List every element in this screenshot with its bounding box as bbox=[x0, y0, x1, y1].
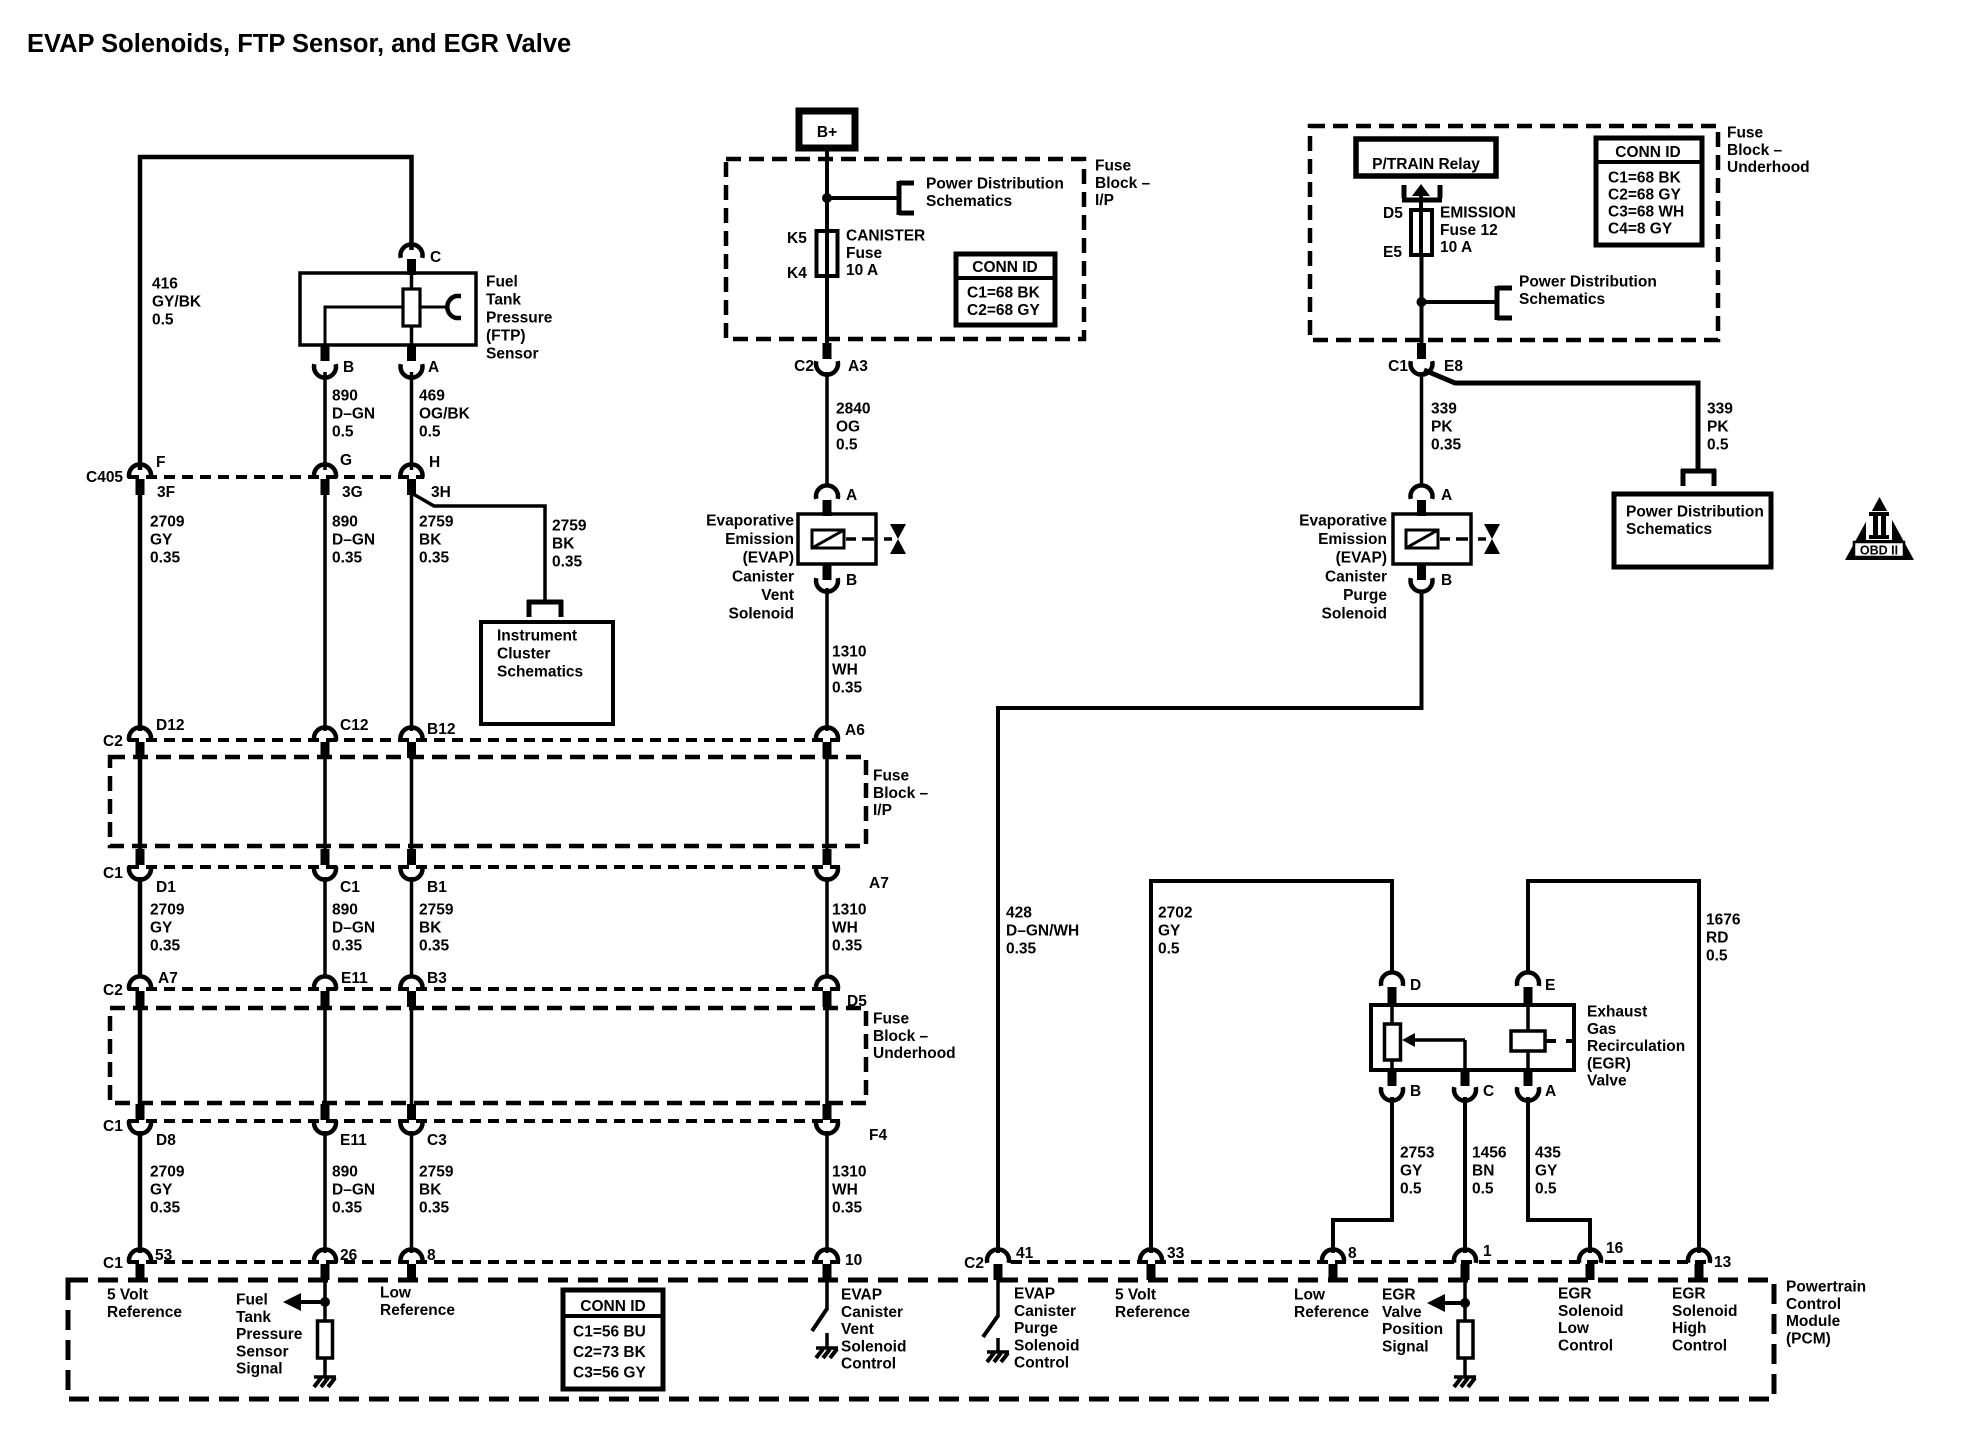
svg-text:10 A: 10 A bbox=[1440, 239, 1472, 256]
FTP sensor internal wire to pin B bbox=[325, 307, 403, 345]
svg-text:Emission: Emission bbox=[1318, 531, 1387, 548]
svg-text:2840: 2840 bbox=[836, 401, 870, 418]
svg-text:0.35: 0.35 bbox=[1431, 437, 1462, 454]
svg-text:EVAP: EVAP bbox=[1014, 1286, 1055, 1303]
svg-text:890: 890 bbox=[332, 1164, 358, 1181]
inline connector row C1 lower dashed line bbox=[128, 1119, 840, 1123]
connector pin C of FTP sensor bbox=[401, 244, 423, 275]
P/TRAIN Relay box bbox=[1356, 139, 1496, 176]
svg-text:Canister: Canister bbox=[841, 1304, 903, 1321]
svg-text:0.5: 0.5 bbox=[152, 312, 174, 329]
OBD II symbol bbox=[1845, 497, 1914, 560]
label Powertrain Control Module (PCM) bbox=[1786, 1279, 1866, 1348]
svg-text:0.35: 0.35 bbox=[552, 554, 583, 571]
svg-text:E: E bbox=[1545, 977, 1555, 994]
ground EGR position signal bbox=[1454, 1377, 1476, 1387]
svg-text:D1: D1 bbox=[156, 879, 176, 896]
svg-text:3F: 3F bbox=[157, 484, 175, 501]
EGR position sensor potentiometer bbox=[1385, 1024, 1401, 1060]
svg-text:OG/BK: OG/BK bbox=[419, 406, 471, 423]
connector pin B of FTP sensor bbox=[314, 345, 336, 378]
svg-text:A7: A7 bbox=[158, 970, 178, 987]
label wire 428 D-GN/WH 0.35 bbox=[1006, 905, 1079, 958]
svg-text:Block –: Block – bbox=[1095, 175, 1151, 192]
svg-text:GY/BK: GY/BK bbox=[152, 294, 202, 311]
svg-text:Instrument: Instrument bbox=[497, 628, 577, 645]
label wire 890 D-GN 0.35 third bbox=[332, 1164, 375, 1217]
svg-text:C1: C1 bbox=[103, 1255, 123, 1272]
FTP sensor internal wire resistor to pin A bbox=[410, 326, 414, 345]
connector C2 pin A7 lower bbox=[129, 976, 151, 1007]
label wire 890 D-GN 0.35 bbox=[332, 514, 375, 567]
wire 1456 BN 0.5 from EGR C to PCM pin 1 bbox=[1463, 1097, 1467, 1253]
svg-text:Reference: Reference bbox=[107, 1304, 182, 1321]
label Fuse Block Underhood bbox=[873, 1011, 956, 1063]
label wire 416 GY/BK 0.5 bbox=[152, 276, 202, 329]
label wire 1310 WH 0.35 bbox=[832, 644, 866, 697]
FTP sensor box bbox=[300, 273, 476, 345]
svg-text:WH: WH bbox=[832, 1182, 858, 1199]
label pin A bbox=[428, 359, 439, 376]
label EGR Valve Position Signal bbox=[1382, 1287, 1443, 1356]
label Fuse Block I/P top bbox=[1095, 158, 1151, 210]
svg-text:2709: 2709 bbox=[150, 1164, 185, 1181]
label pin H bbox=[429, 454, 440, 471]
label fuse terminal D5 bbox=[1383, 205, 1403, 222]
svg-text:BK: BK bbox=[419, 920, 442, 937]
vent solenoid coil symbol bbox=[812, 530, 844, 548]
wire inside underhood block B3 to C3 bbox=[410, 1007, 414, 1104]
svg-text:339: 339 bbox=[1707, 401, 1733, 418]
label vent solenoid pin A bbox=[846, 487, 857, 504]
CONN ID box I/P bbox=[956, 254, 1055, 325]
label connector C1 bottom bbox=[103, 1255, 123, 1272]
label EVAP Canister Vent Solenoid Control bbox=[841, 1287, 906, 1373]
svg-text:BK: BK bbox=[552, 536, 575, 553]
label pin A3 bbox=[848, 358, 868, 375]
wire 416 GY/BK feed from FTP sensor pin C to connector C405 pin F bbox=[140, 157, 412, 470]
canister fuse element bbox=[817, 231, 838, 276]
svg-text:0.35: 0.35 bbox=[832, 1200, 863, 1217]
label Low Reference bbox=[380, 1285, 455, 1319]
junction FTP sensor signal bbox=[320, 1297, 330, 1307]
svg-text:469: 469 bbox=[419, 388, 445, 405]
svg-text:0.5: 0.5 bbox=[836, 437, 858, 454]
svg-text:C12: C12 bbox=[340, 717, 368, 734]
label wire 435 GY 0.5 bbox=[1535, 1145, 1561, 1198]
svg-text:Vent: Vent bbox=[841, 1321, 874, 1338]
svg-text:EVAP Solenoids, FTP Sensor, an: EVAP Solenoids, FTP Sensor, and EGR Valv… bbox=[27, 30, 571, 58]
svg-text:5 Volt: 5 Volt bbox=[1115, 1287, 1156, 1304]
connector pin D of EGR valve bbox=[1381, 972, 1403, 1003]
wire PCM pin 10 internal bbox=[825, 1280, 829, 1309]
label EGR Solenoid Low Control bbox=[1558, 1286, 1623, 1355]
svg-text:Solenoid: Solenoid bbox=[841, 1338, 906, 1355]
label C405 bbox=[86, 469, 123, 486]
EGR solenoid wire through bbox=[1526, 1005, 1530, 1070]
label Instrument Cluster Schematics bbox=[497, 628, 583, 681]
svg-text:16: 16 bbox=[1606, 1240, 1624, 1257]
label pin D8 bbox=[156, 1132, 176, 1149]
svg-text:428: 428 bbox=[1006, 905, 1032, 922]
svg-text:Evaporative: Evaporative bbox=[706, 513, 794, 530]
label terminal 3H bbox=[431, 484, 451, 501]
svg-text:C1: C1 bbox=[103, 865, 123, 882]
label wire 1310 WH 0.35 third bbox=[832, 1164, 866, 1217]
svg-text:PK: PK bbox=[1431, 419, 1453, 436]
svg-text:0.5: 0.5 bbox=[1400, 1181, 1422, 1198]
svg-text:OG: OG bbox=[836, 419, 860, 436]
label wire 1456 BN 0.5 bbox=[1472, 1145, 1507, 1198]
svg-text:I/P: I/P bbox=[1095, 192, 1114, 209]
label pin 16 bbox=[1606, 1240, 1624, 1257]
connector C405 pin H bbox=[401, 464, 423, 495]
connector C2 pin C12 bbox=[314, 727, 336, 758]
junction to power distribution bbox=[822, 193, 832, 203]
wire 339 PK 0.35 from E8 to purge solenoid pin A bbox=[1420, 372, 1424, 487]
label pin 8 right bbox=[1348, 1245, 1357, 1262]
svg-text:0.35: 0.35 bbox=[832, 680, 863, 697]
label pin A7 lower bbox=[158, 970, 178, 987]
svg-text:1310: 1310 bbox=[832, 644, 866, 661]
svg-text:GY: GY bbox=[1158, 923, 1181, 940]
CONN ID box underhood bbox=[1596, 138, 1702, 245]
EVAP canister purge solenoid box bbox=[1393, 514, 1471, 564]
svg-text:H: H bbox=[429, 454, 440, 471]
purge solenoid coil symbol bbox=[1406, 530, 1438, 548]
label wire 2709 GY 0.35 second bbox=[150, 902, 185, 955]
label pin E11 lower bbox=[340, 1132, 367, 1149]
wire 890 D-GN 0.35 from C405 G to C2 pin C12 bbox=[323, 495, 327, 731]
wire junction to power distribution pointer right bbox=[1422, 300, 1498, 304]
inline connector row C2 lower dashed line bbox=[128, 987, 840, 991]
svg-text:(EVAP): (EVAP) bbox=[1336, 550, 1387, 567]
svg-text:0.35: 0.35 bbox=[150, 938, 181, 955]
svg-text:1456: 1456 bbox=[1472, 1145, 1507, 1162]
svg-text:A: A bbox=[1545, 1083, 1556, 1100]
label fuse terminal K4 bbox=[787, 265, 807, 282]
svg-text:Tank: Tank bbox=[236, 1309, 271, 1326]
connector C2 pin E11 bbox=[314, 976, 336, 1007]
svg-text:1676: 1676 bbox=[1706, 912, 1741, 929]
svg-text:890: 890 bbox=[332, 388, 358, 405]
svg-text:0.5: 0.5 bbox=[1535, 1181, 1557, 1198]
svg-text:1310: 1310 bbox=[832, 902, 866, 919]
label pin E11 bbox=[341, 970, 368, 987]
label connector C2 bbox=[103, 733, 123, 750]
connector C2 pin D12 bbox=[129, 727, 151, 758]
label Evaporative Emission (EVAP) Canister Purge Solenoid bbox=[1299, 513, 1387, 623]
purge solenoid control switch bbox=[983, 1315, 999, 1337]
label Power Distribution Schematics top bbox=[926, 176, 1064, 210]
svg-text:Control: Control bbox=[1672, 1337, 1727, 1354]
wire 2709 GY 0.35 from C405 F to C2 pin D12 bbox=[138, 495, 143, 731]
svg-text:13: 13 bbox=[1714, 1254, 1732, 1271]
svg-text:Valve: Valve bbox=[1382, 1304, 1422, 1321]
connector pin 16 bbox=[1579, 1249, 1601, 1280]
svg-text:B1: B1 bbox=[427, 879, 447, 896]
svg-text:Solenoid: Solenoid bbox=[1558, 1303, 1623, 1320]
vent solenoid dashed link to valve bbox=[846, 537, 892, 541]
label purge solenoid pin B bbox=[1441, 572, 1452, 589]
label wire 2709 GY 0.35 bbox=[150, 514, 185, 567]
svg-text:0.35: 0.35 bbox=[419, 938, 450, 955]
svg-text:0.35: 0.35 bbox=[419, 550, 450, 567]
pressure transducer symbol inside FTP sensor bbox=[420, 296, 461, 318]
PCM internal resistor EGR bbox=[1458, 1321, 1473, 1358]
svg-text:0.35: 0.35 bbox=[332, 550, 363, 567]
svg-text:Underhood: Underhood bbox=[873, 1045, 956, 1062]
off-page pointer power distribution right bbox=[1497, 286, 1512, 320]
svg-text:Schematics: Schematics bbox=[926, 193, 1012, 210]
svg-text:B+: B+ bbox=[817, 124, 837, 141]
svg-text:D12: D12 bbox=[156, 717, 184, 734]
wire junction to power distribution pointer bbox=[827, 196, 899, 200]
svg-text:0.35: 0.35 bbox=[332, 1200, 363, 1217]
vent solenoid control switch bbox=[812, 1308, 828, 1331]
inline connector C405 dashed line bbox=[128, 475, 424, 479]
connector pin 1 bbox=[1454, 1249, 1476, 1280]
svg-text:WH: WH bbox=[832, 920, 858, 937]
label wire 890 D-GN 0.5 bbox=[332, 388, 375, 441]
Power Distribution Schematics box bbox=[1614, 494, 1771, 567]
svg-text:A: A bbox=[1441, 487, 1452, 504]
svg-text:EVAP: EVAP bbox=[841, 1287, 882, 1304]
label Fuse Block I/P bbox=[873, 768, 929, 820]
label connector C2 bottom bbox=[964, 1255, 984, 1272]
svg-text:EGR: EGR bbox=[1382, 1287, 1416, 1304]
label pin 13 bbox=[1714, 1254, 1732, 1271]
off-page connector to power distribution box bbox=[1681, 469, 1716, 486]
svg-text:2753: 2753 bbox=[1400, 1145, 1435, 1162]
svg-text:416: 416 bbox=[152, 276, 178, 293]
connector pin C of EGR valve bbox=[1454, 1070, 1476, 1101]
wire 2759 BK 0.35 from C405 H to C2 pin B12 bbox=[410, 495, 414, 731]
wire 890 D-GN 0.5 from FTP pin B to C405 pin G bbox=[323, 372, 327, 470]
label purge solenoid pin A bbox=[1441, 487, 1452, 504]
connector pin E of EGR valve bbox=[1517, 972, 1539, 1003]
EVAP canister vent solenoid box bbox=[798, 514, 876, 564]
connector C2 pin B12 bbox=[401, 727, 423, 758]
svg-text:K4: K4 bbox=[787, 265, 807, 282]
svg-text:0.35: 0.35 bbox=[150, 550, 181, 567]
svg-text:Fuse: Fuse bbox=[873, 768, 910, 785]
EGR solenoid link to case bbox=[1545, 1039, 1576, 1043]
svg-text:C2=73 BK: C2=73 BK bbox=[573, 1344, 647, 1361]
svg-text:PK: PK bbox=[1707, 419, 1729, 436]
svg-text:A: A bbox=[846, 487, 857, 504]
svg-text:Tank: Tank bbox=[486, 292, 521, 309]
label wire 2702 GY 0.5 bbox=[1158, 905, 1192, 958]
wire 1310 WH 0.35 from F4 to PCM pin 10 bbox=[825, 1131, 829, 1253]
svg-text:C1: C1 bbox=[103, 1118, 123, 1135]
label connector C2 lower bbox=[103, 982, 123, 999]
connector C1 pin 53 bbox=[129, 1249, 151, 1280]
svg-text:Schematics: Schematics bbox=[1626, 521, 1712, 538]
svg-text:Low: Low bbox=[1294, 1287, 1326, 1304]
label wire 2759 BK 0.35 second bbox=[419, 902, 454, 955]
svg-text:C: C bbox=[430, 249, 441, 266]
battery feed B+ box bbox=[799, 111, 855, 148]
label Power Distribution Schematics right bbox=[1519, 274, 1657, 308]
connector C405 pin G bbox=[314, 464, 336, 495]
svg-text:Fuel: Fuel bbox=[486, 274, 518, 291]
connector pin 8 right bbox=[1322, 1249, 1344, 1280]
svg-text:Exhaust: Exhaust bbox=[1587, 1004, 1647, 1021]
svg-text:890: 890 bbox=[332, 902, 358, 919]
svg-text:2759: 2759 bbox=[419, 514, 454, 531]
connector pin 13 bbox=[1688, 1249, 1710, 1280]
svg-text:(EVAP): (EVAP) bbox=[743, 550, 794, 567]
label Evaporative Emission (EVAP) Canister Vent Solenoid bbox=[706, 513, 794, 623]
svg-text:B: B bbox=[1441, 572, 1452, 589]
svg-text:41: 41 bbox=[1016, 1245, 1034, 1262]
svg-text:Solenoid: Solenoid bbox=[729, 606, 794, 623]
svg-text:A3: A3 bbox=[848, 358, 868, 375]
svg-text:B: B bbox=[343, 359, 354, 376]
label EGR pin E bbox=[1545, 977, 1555, 994]
label wire 2759 BK 0.35 bbox=[419, 514, 454, 567]
svg-text:B: B bbox=[1410, 1083, 1421, 1100]
label pin 8 bbox=[427, 1247, 436, 1264]
svg-text:EGR: EGR bbox=[1672, 1286, 1706, 1303]
connector C2 pin D5 bbox=[816, 976, 838, 1007]
svg-text:E11: E11 bbox=[340, 1132, 367, 1149]
svg-text:0.5: 0.5 bbox=[419, 424, 441, 441]
svg-text:Pressure: Pressure bbox=[486, 310, 553, 327]
label B+ bbox=[817, 124, 837, 141]
svg-text:0.35: 0.35 bbox=[332, 938, 363, 955]
label pin A7 bbox=[869, 875, 889, 892]
svg-text:2702: 2702 bbox=[1158, 905, 1192, 922]
inline connector row C2 dashed line bbox=[128, 738, 840, 742]
svg-text:0.35: 0.35 bbox=[832, 938, 863, 955]
svg-text:EGR: EGR bbox=[1558, 1286, 1592, 1303]
wire PCM pin 1 internal bbox=[1463, 1280, 1467, 1321]
label C1 at E8 bbox=[1388, 358, 1408, 375]
wire 2709 GY 0.35 from D8 to PCM pin 53 bbox=[138, 1131, 143, 1253]
svg-text:G: G bbox=[340, 452, 352, 469]
svg-text:Module: Module bbox=[1786, 1313, 1841, 1330]
svg-text:1: 1 bbox=[1483, 1243, 1492, 1260]
label pin B12 bbox=[427, 721, 455, 738]
label pin D5 bbox=[847, 993, 867, 1010]
svg-text:WH: WH bbox=[832, 662, 858, 679]
svg-text:D–GN: D–GN bbox=[332, 532, 375, 549]
connector C2 A3 bbox=[816, 343, 838, 375]
label wire 469 OG/BK 0.5 bbox=[419, 388, 471, 441]
label wire 339 PK 0.35 bbox=[1431, 401, 1462, 454]
label EGR pin C bbox=[1483, 1083, 1494, 1100]
svg-text:Underhood: Underhood bbox=[1727, 159, 1810, 176]
wire PCM pin 41 internal bbox=[996, 1280, 1000, 1316]
wire 2840 OG 0.5 from C2 A3 to vent solenoid pin A bbox=[825, 372, 829, 487]
connector C1 pin B1 bbox=[401, 849, 423, 880]
svg-text:BN: BN bbox=[1472, 1163, 1494, 1180]
svg-text:435: 435 bbox=[1535, 1145, 1561, 1162]
connector C1 pin C3 bbox=[401, 1104, 423, 1134]
label wire 1310 WH 0.35 second bbox=[832, 902, 866, 955]
label connector C1 lower bbox=[103, 1118, 123, 1135]
label wire 890 D-GN 0.35 second bbox=[332, 902, 375, 955]
label 5 Volt Reference right bbox=[1115, 1287, 1190, 1321]
connector pin 10 bbox=[816, 1249, 838, 1280]
label pin A6 bbox=[845, 722, 865, 739]
svg-text:Gas: Gas bbox=[1587, 1021, 1616, 1038]
label wire 2709 GY 0.35 third bbox=[150, 1164, 185, 1217]
label EGR Solenoid High Control bbox=[1672, 1286, 1737, 1355]
wire from B+ to canister fuse bbox=[825, 148, 829, 276]
wire canister fuse to connector C2 A3 bbox=[825, 276, 829, 345]
svg-text:Evaporative: Evaporative bbox=[1299, 513, 1387, 530]
label pin B1 bbox=[427, 879, 447, 896]
emission fuse element bbox=[1411, 210, 1432, 255]
EGR valve box bbox=[1371, 1005, 1574, 1070]
svg-text:E8: E8 bbox=[1444, 358, 1463, 375]
svg-text:3G: 3G bbox=[342, 484, 363, 501]
label pin C1 bbox=[340, 879, 360, 896]
connector C1 pin E11 lower bbox=[314, 1104, 336, 1134]
svg-text:D5: D5 bbox=[1383, 205, 1403, 222]
purge solenoid valve symbol bbox=[1484, 524, 1500, 554]
label wire 2759 BK 0.35 branch bbox=[552, 518, 587, 571]
svg-text:0.35: 0.35 bbox=[150, 1200, 181, 1217]
svg-text:890: 890 bbox=[332, 514, 358, 531]
label 5 Volt Reference bbox=[107, 1287, 182, 1321]
label EGR pin A bbox=[1545, 1083, 1556, 1100]
svg-text:Low: Low bbox=[380, 1285, 412, 1302]
svg-text:CONN ID: CONN ID bbox=[972, 259, 1037, 276]
Fuse Block I/P dashed box top bbox=[726, 159, 1084, 339]
label Fuel Tank Pressure Sensor Signal bbox=[236, 1292, 303, 1378]
svg-text:D8: D8 bbox=[156, 1132, 176, 1149]
svg-text:E11: E11 bbox=[341, 970, 368, 987]
EGR potentiometer wiper arrow bbox=[1402, 1033, 1465, 1070]
connector C1 E8 bbox=[1411, 343, 1433, 375]
wire inside fuse block pin C12 to C1 bbox=[323, 758, 327, 849]
wire inside fuse block pin B12 to B1 bbox=[410, 758, 414, 849]
wire 1310 WH 0.35 from vent solenoid B to A6 bbox=[825, 588, 829, 731]
svg-text:Solenoid: Solenoid bbox=[1672, 1303, 1737, 1320]
svg-text:0.5: 0.5 bbox=[1706, 948, 1728, 965]
svg-text:A: A bbox=[428, 359, 439, 376]
svg-text:26: 26 bbox=[340, 1247, 358, 1264]
svg-text:Fuse 12: Fuse 12 bbox=[1440, 222, 1498, 239]
vent solenoid valve symbol bbox=[890, 524, 906, 554]
svg-text:Low: Low bbox=[1558, 1320, 1590, 1337]
label pin 33 bbox=[1167, 1245, 1185, 1262]
svg-text:K5: K5 bbox=[787, 230, 807, 247]
label pin B bbox=[343, 359, 354, 376]
wire 2702 GY 0.5 from PCM pin 33 to EGR pin D bbox=[1151, 881, 1392, 1253]
svg-text:GY: GY bbox=[1400, 1163, 1423, 1180]
svg-text:C1=68 BK: C1=68 BK bbox=[1608, 170, 1682, 187]
svg-text:(FTP): (FTP) bbox=[486, 328, 526, 345]
PCM internal resistor FTP bbox=[318, 1321, 333, 1358]
connector pin A of EGR valve bbox=[1517, 1070, 1539, 1101]
EGR valve position signal arrow bbox=[1427, 1294, 1465, 1312]
connector pin B of vent solenoid bbox=[816, 564, 838, 592]
EGR position sensor wire through bbox=[1390, 1005, 1394, 1070]
svg-text:BK: BK bbox=[419, 1182, 442, 1199]
PCM connector row C2 dashed line bbox=[1011, 1260, 1712, 1264]
label C2 at A3 bbox=[794, 358, 814, 375]
svg-text:2709: 2709 bbox=[150, 902, 185, 919]
FTP sensor internal wire pin C to resistor bbox=[410, 273, 414, 291]
svg-text:D: D bbox=[1410, 977, 1421, 994]
ground FTP signal bbox=[314, 1377, 336, 1387]
svg-text:P/TRAIN Relay: P/TRAIN Relay bbox=[1372, 156, 1480, 173]
